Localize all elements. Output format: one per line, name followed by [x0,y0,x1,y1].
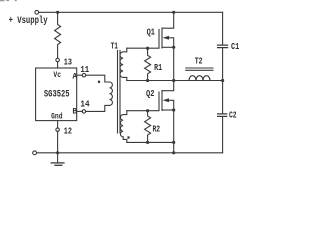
transformer T1 core [118,51,121,134]
junction R1 bottom [146,79,149,82]
wire bottom bus [58,152,223,154]
svg-text:C2: C2 [229,111,237,121]
T1 lower secondary phase dot [127,136,129,138]
wire top bus [39,11,223,13]
wire ground terminal to bus [37,152,58,154]
wire pin12 to ground bus [57,131,59,153]
svg-text:+ Vsupply: + Vsupply [9,15,48,27]
resistor R2 [145,111,151,143]
wire upper loop bottom rail [127,80,223,82]
inductor T2 core lines [186,68,213,70]
svg-text:12: 12 [64,126,72,136]
T1 primary phase dot [98,81,100,83]
svg-text:14: 14 [80,99,90,109]
T1 primary winding [110,82,113,105]
wire right bus lower [222,117,224,153]
T1 upper secondary winding [120,48,127,80]
svg-text:Q1: Q1 [147,28,156,38]
pin 12 terminal [56,128,60,132]
capacitor C1 [218,45,228,48]
svg-text:R2: R2 [153,125,161,135]
junction top bus / supply resistor [56,11,59,14]
svg-text:B: B [72,108,77,117]
svg-text:A: A [72,72,77,81]
junction top bus / Q1 drain [172,11,175,14]
junction lower return / Q2 source vertical [172,141,175,144]
transistor Q2 [159,81,174,111]
wire Q1 gate line [127,47,159,49]
pin 11 stub [77,74,83,76]
wire pin13 stub [57,62,59,68]
terminal +Vsupply [35,10,39,14]
svg-text:13: 13 [64,58,72,68]
wire pin11 to T1 primary top [86,75,110,82]
resistor (Vc supply) [55,12,61,58]
svg-text:SG3525: SG3525 [44,88,70,100]
junction mid rail / right bus [221,79,224,82]
ground [51,153,64,166]
IC U1 SG3525 box [36,68,77,121]
junction mid rail / Q1 source / Q2 drain [172,79,175,82]
pin 14 stub [77,110,83,112]
pin 12 stub [57,121,59,129]
svg-text:R1: R1 [154,63,162,73]
T1 lower secondary winding [120,111,126,143]
svg-text:T2: T2 [195,57,203,67]
junction Q1 source/body [172,46,175,49]
svg-text:C1: C1 [231,42,240,52]
resistor R1 [145,48,151,80]
svg-text:Q2: Q2 [146,89,154,99]
junction Q2 source/body [172,108,175,111]
wire pin14 to T1 primary bottom [86,105,110,111]
junction ground bus / pin12 [56,151,59,154]
transistor Q1 [159,12,174,48]
wire Q2 source down to bottom bus [173,110,175,153]
terminal ground input [33,151,37,155]
svg-text:Vc: Vc [53,70,61,80]
svg-text:T1: T1 [111,41,119,51]
junction R2 bottom [146,141,149,144]
wire Q1 source to mid rail [173,47,175,80]
terminal pin 13 [56,58,60,62]
wire lower loop return [127,141,174,143]
wire Q2 gate line [127,110,159,112]
junction R2 top [146,109,149,112]
wire right bus upper [222,12,224,44]
svg-text:11: 11 [80,65,89,75]
wire right bus middle [222,48,224,113]
svg-text:Gnd: Gnd [51,113,63,122]
pin 14 terminal [82,110,86,114]
inductor T2 winding [189,76,210,81]
capacitor C2 [218,114,227,117]
pin 11 terminal [82,73,86,77]
junction R1 top [146,47,149,50]
junction Q2 source / bottom bus [172,151,175,154]
